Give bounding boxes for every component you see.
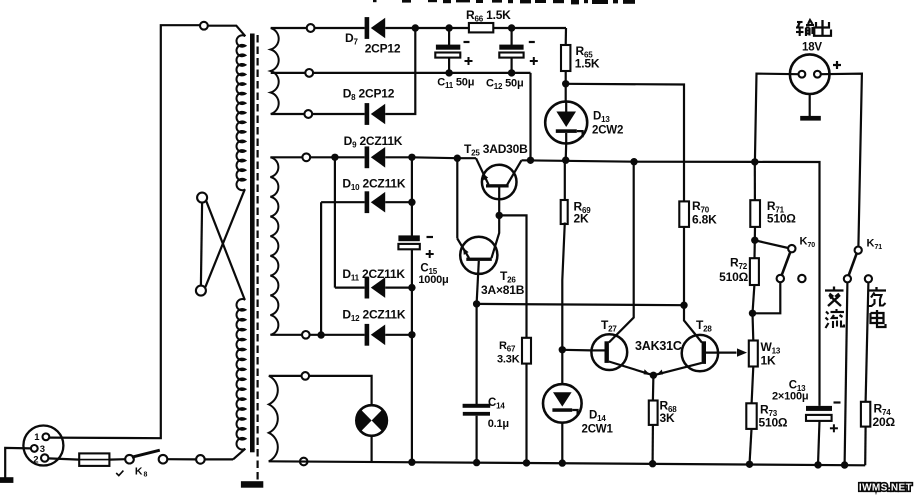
diode D8 [365,103,370,125]
wire C12 bottom [511,58,513,73]
node rail C12col [527,157,534,164]
svg-text:R66 1.5K: R66 1.5K [466,8,511,24]
capacitor C14 [463,404,491,408]
ground rail [269,461,866,465]
svg-text:IWMS.NET: IWMS.NET [859,483,912,494]
rectifier rail to T25 [412,156,476,159]
node rail C13 [814,461,821,468]
lamp [356,405,387,436]
wire C12 top [511,28,513,45]
wire winding2 top to D9 [270,156,364,158]
capacitor C11 [436,45,460,50]
node rail R67 [523,459,530,466]
wire node to D13 [565,84,567,102]
resistor R73 [746,403,756,429]
zener D14 [543,384,582,423]
resistor R67 [522,338,531,364]
selector diagonal to lower tap [205,189,245,287]
terminal W3 top [302,372,310,380]
selector link [201,203,202,286]
tap selector upper circle [197,193,207,203]
node rail D14 [559,459,566,466]
lamp bottom wire [371,436,373,462]
terminal [196,455,205,464]
output left column [755,74,799,162]
wire fuse to K8 [109,458,125,461]
wire into primary coil [208,26,246,37]
wire pin1 to primary top [49,25,199,438]
node K70 [751,237,758,244]
resistor R72 [750,258,759,285]
output ground [809,94,811,117]
error amp line [477,304,684,305]
svg-text:8: 8 [144,471,148,478]
capacitor C12 [499,45,523,50]
svg-text:3AK31C: 3AK31C [635,339,682,353]
capacitor C13 [806,406,832,411]
svg-text:3K: 3K [660,411,675,425]
wire D7 to node [385,27,415,29]
svg-text:2CP12: 2CP12 [365,42,401,56]
svg-text:20Ω: 20Ω [873,415,896,429]
ground (mains) [0,477,13,483]
primary bottom lead [233,449,245,460]
switch K70 [755,240,788,248]
title text fragments (cropped) [373,0,377,2]
node C12 bottom [508,69,515,76]
fuse [79,453,109,466]
wire C11 bottom [448,58,450,73]
tap selector lower circle [196,286,206,296]
transistor T28 [682,335,718,371]
diode D10 [365,191,370,213]
terminal S1 tap [305,69,313,77]
wire D11 to bus [385,287,412,289]
svg-text:71: 71 [875,244,883,251]
core lamination (dashed) [257,35,259,481]
svg-text:K: K [135,465,143,477]
diode D11 [365,277,370,299]
wire D12 to bus [385,334,412,336]
switch K71 [855,247,862,254]
svg-text:70: 70 [808,242,816,249]
secondary winding 1 [271,28,279,114]
terminal W3 bottom [300,458,308,466]
wire R74 to rail [864,427,867,466]
check mark [116,471,123,476]
transistor T25 [482,165,517,200]
wire R67 to rail [525,364,527,463]
label 输出 (output) [797,21,803,23]
node D11 bus [408,284,415,291]
wire R65node to R70 [566,84,684,202]
node R65 bottom [562,80,569,87]
wire D11 row [335,287,365,289]
svg-text:1000μ: 1000μ [418,274,448,286]
terminal S2 bottom [302,331,310,339]
node T26 emitter column [454,155,461,162]
wire C13 to rail [818,421,820,465]
winding3 top lead [269,375,302,377]
svg-text:2CW2: 2CW2 [592,125,623,137]
bus anode left [320,202,322,335]
potentiometer W13 [751,313,754,340]
resistor R71 [750,200,760,227]
primary winding upper [236,35,245,190]
label 充电 (charge) [875,287,877,290]
wire winding2 bottom [270,334,302,336]
resistor R70 [679,201,689,227]
node rail bus [408,459,415,466]
resistor R66 [469,23,493,32]
wire R71 to node [754,227,756,240]
node D7/D8 [412,24,419,31]
mid rail [522,160,820,406]
top rail [415,27,566,29]
node W13 top [749,310,756,317]
pin 3 [31,445,38,452]
zener D13 [545,102,587,144]
node emitters [650,372,657,379]
terminal S2 top [302,153,310,161]
svg-text:3.3K: 3.3K [497,354,520,366]
node C12 top [508,24,515,31]
svg-text:C12 50μ: C12 50μ [486,78,523,92]
node D12 bus [408,331,415,338]
node C11 top [445,24,452,31]
capacitor C15 [398,235,419,241]
pin 2 [41,454,48,461]
wire C14 column [476,304,478,404]
wire S1 tap rail [271,72,531,74]
diode D9 [365,146,370,168]
svg-text:18V: 18V [802,42,822,54]
resistor R69 2K [564,160,566,200]
svg-text:3A×81B: 3A×81B [481,283,525,297]
wire D12 row [310,334,365,336]
node rail T27col [630,158,637,165]
svg-text:2×100μ: 2×100μ [772,391,808,403]
wire C11 top [448,28,450,45]
selector diagonal to upper tap [206,201,245,300]
svg-text:2K: 2K [574,212,589,226]
wire S1 bottom to D8 [271,113,365,115]
bus anode mid [334,157,336,287]
resistor R68 3K [652,375,655,400]
svg-text:2: 2 [33,454,38,465]
wire to primary bottom [205,458,233,460]
wire D10 row [321,201,365,203]
wire rail to R71 [754,162,756,200]
wire K71 left down [845,282,848,465]
transistor T26 [460,237,497,274]
node R70 bottom [680,302,687,309]
node T27 base tee [559,346,566,353]
node T25 base [496,212,503,219]
mains connector plug [23,426,63,466]
svg-text:6.8K: 6.8K [692,213,717,227]
wire W13 to R73 [752,367,754,404]
node rail R71col [751,158,758,165]
terminal primary top [200,22,208,30]
svg-text:C11 50μ: C11 50μ [437,77,474,91]
wire R72 [753,240,755,258]
node rail R68 [649,460,656,467]
ground (core) [241,481,263,488]
secondary winding 3 [269,376,278,461]
wire winding1 top to D7 row [271,27,365,29]
resistor R74 [861,402,870,427]
wire emitter column T26 [456,158,458,238]
svg-text:510Ω: 510Ω [719,270,748,284]
node T26 base [473,300,480,307]
wire T25 base to R67 col [499,215,526,337]
svg-text:D8 2CP12: D8 2CP12 [343,87,395,103]
wire D14 to rail [561,423,563,463]
wire R72 to node [753,285,755,313]
diode D7 [365,17,370,39]
wire K70 contact down [753,282,781,313]
node rail D13 [562,157,569,164]
svg-text:1K: 1K [761,354,776,368]
node rail C14 [473,459,480,466]
wire R73 to rail [750,429,752,464]
wire C14 to ground rail [476,416,478,463]
wire D8 up to node [385,28,415,114]
node C11 bottom [445,69,452,76]
wire C12 node down to rail [529,73,531,160]
main bus [411,157,413,235]
svg-text:510Ω: 510Ω [759,416,788,430]
wire K71 right to R74 [866,282,869,401]
label 交流 (AC) [833,287,835,291]
wiper arrow W13 [737,348,747,356]
wire to lamp [309,376,372,405]
svg-text:1.5K: 1.5K [575,57,600,71]
output socket [790,54,830,94]
diode D12 [365,324,370,346]
terminal S1 top [307,24,315,32]
primary winding lower [236,299,245,449]
wire D10 to bus [385,201,412,203]
transistor T27 [591,334,627,370]
secondary winding 2 [270,157,278,334]
node bus top [408,154,415,161]
node D10 bus [408,199,415,206]
wire K8 to transformer [167,458,196,460]
svg-text:0.1μ: 0.1μ [488,418,509,430]
svg-text:2CW1: 2CW1 [582,424,614,436]
node D12 left [317,331,324,338]
wire T27 base [562,349,591,352]
node rail R73 [746,461,753,468]
wire pin2 to fuse [48,458,79,459]
svg-text:510Ω: 510Ω [767,212,796,226]
svg-text:3: 3 [40,444,45,455]
svg-text:K: K [800,236,808,248]
core [250,34,255,453]
wire R70 to error line [683,227,685,305]
node D9 bus [331,154,338,161]
wire D13 to rail [565,144,568,161]
node rail K71 [841,461,848,468]
output right wire [821,74,862,247]
terminal S1 bottom [304,110,312,118]
wire D9 to bus [385,156,412,158]
svg-text:K: K [867,238,875,250]
pin 1 [43,433,50,440]
switch K8 [125,455,134,464]
wire pin3 to ground [5,448,31,478]
resistor R65 [565,28,567,45]
